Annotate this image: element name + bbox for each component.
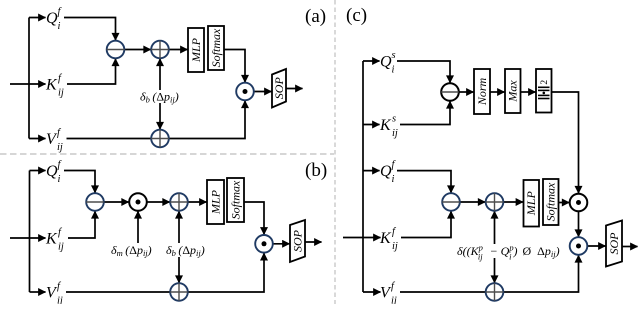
svg-text:ij: ij xyxy=(58,88,64,99)
wire multiply2 to SOP (c) xyxy=(587,245,605,247)
wire multiply to SOP (b) xyxy=(273,243,290,245)
wire delta_b down to add2 (a) xyxy=(159,103,161,129)
svg-text:ij: ij xyxy=(392,241,398,252)
wire Norm to Max (c) xyxy=(490,91,505,93)
wire trunk to V label (a) xyxy=(29,138,46,140)
subtract2 circle (c) xyxy=(442,193,460,211)
svg-text:K: K xyxy=(45,77,58,94)
wire Ks to subtract1 (c) xyxy=(400,101,450,124)
wire trunk (c) xyxy=(362,61,364,292)
wire Qs to subtract1 (c) xyxy=(397,61,450,83)
wire Max to norm2 (c) xyxy=(521,91,536,93)
svg-text:ij: ij xyxy=(58,242,64,253)
wire V line to multiply (b) xyxy=(66,253,264,292)
wire trunk to V label (b) xyxy=(30,291,46,293)
wire multiply1 to multiply2 (c) xyxy=(578,211,580,236)
svg-text:δm(Δpij): δm(Δpij) xyxy=(111,243,152,258)
wire Q to subtract (b) xyxy=(64,171,95,193)
wire delta up to add1 (c) xyxy=(494,211,496,244)
MLP box (c) xyxy=(524,180,540,227)
svg-text:s: s xyxy=(392,114,396,125)
svg-text:Q: Q xyxy=(46,163,58,180)
svg-text:s: s xyxy=(392,50,396,61)
wire subtract2 to add1 (c) xyxy=(460,201,485,203)
wire trunk (b) xyxy=(29,171,31,293)
wire V line to multiply (a) xyxy=(67,101,246,139)
add1 circle (c) xyxy=(486,193,504,211)
svg-text:MLP: MLP xyxy=(209,189,223,215)
svg-text:ij: ij xyxy=(57,296,63,305)
svg-text:MLP: MLP xyxy=(189,37,203,63)
Max box (c) xyxy=(505,69,521,113)
wire trunk (a) xyxy=(28,18,30,139)
svg-text:ij: ij xyxy=(391,296,397,305)
svg-text:i: i xyxy=(58,21,61,32)
wire input arrow (a) xyxy=(10,83,46,85)
svg-text:MLP: MLP xyxy=(524,191,538,217)
wire SOP output (a) xyxy=(286,88,303,90)
wire trunk to V label (c) xyxy=(363,291,381,293)
svg-text:δ((Kpij − Qpi)ØΔpij): δ((Kpij − Qpi)ØΔpij) xyxy=(457,243,560,262)
svg-text:i: i xyxy=(58,174,61,185)
wire SOP output (c) xyxy=(622,246,638,248)
norm2 box (c) xyxy=(536,69,552,113)
wire delta_m up to dotprod (b) xyxy=(137,211,139,243)
svg-text:Softmax: Softmax xyxy=(544,182,558,221)
add2 circle on V (c) xyxy=(486,283,504,301)
svg-text:ij: ij xyxy=(57,142,63,153)
svg-text:δb(Δpij): δb(Δpij) xyxy=(140,90,179,105)
wire delta_b up to add (a) xyxy=(159,59,161,90)
wire Softmax to multiply (a) xyxy=(224,50,245,83)
add circle (b) xyxy=(170,193,188,211)
wire K to subtract (a) xyxy=(67,59,116,84)
wire trunk to Qs label (c) xyxy=(363,60,380,62)
wire SOP output (b) xyxy=(305,241,322,243)
wire input arrow (c) xyxy=(343,237,381,239)
wire add to MLP (a) xyxy=(169,49,188,51)
wire V line to multiply2 (c) xyxy=(400,255,579,292)
svg-text:i: i xyxy=(392,65,395,76)
multiply2 circle (c) xyxy=(570,237,588,255)
svg-text:f: f xyxy=(58,160,63,171)
svg-text:f: f xyxy=(57,128,62,139)
SOP parallelogram (a) xyxy=(272,69,286,108)
svg-text:ij: ij xyxy=(392,128,398,139)
svg-text:Max: Max xyxy=(506,80,520,103)
Softmax box (b) xyxy=(227,178,244,222)
add circle on V (b) xyxy=(170,283,188,301)
wire Qf to subtract2 (c) xyxy=(397,171,451,193)
wire subtract to add (a) xyxy=(124,49,150,51)
wire trunk to Q label (b) xyxy=(30,170,46,172)
subtract circle (b) xyxy=(86,193,104,211)
wire trunk to Q label (a) xyxy=(29,17,46,19)
svg-text:Q: Q xyxy=(380,54,392,71)
svg-text:SOP: SOP xyxy=(607,232,621,255)
svg-text:f: f xyxy=(58,7,63,18)
svg-text:f: f xyxy=(58,227,63,238)
svg-text:Softmax: Softmax xyxy=(229,180,243,219)
wire add1 to MLP (c) xyxy=(503,201,523,203)
svg-text:δb(Δpij): δb(Δpij) xyxy=(166,243,205,258)
subtract1 circle (c) xyxy=(441,83,459,101)
Norm box (c) xyxy=(474,69,490,114)
svg-text:(b): (b) xyxy=(305,160,327,181)
wire multiply to SOP (a) xyxy=(254,91,272,93)
add circle (a) xyxy=(151,41,169,59)
wire Kf to subtract2 (c) xyxy=(401,211,451,237)
wire dotprod to add (b) xyxy=(147,201,170,203)
wire delta_b down to add2 (b) xyxy=(178,257,180,283)
Softmax box (c) xyxy=(543,179,559,225)
wire delta_b up to add (b) xyxy=(178,211,180,243)
wire K to subtract (b) xyxy=(68,211,95,238)
svg-text:SOP: SOP xyxy=(272,77,286,100)
svg-text:Q: Q xyxy=(46,10,58,27)
svg-text:f: f xyxy=(392,160,397,171)
SOP parallelogram (c) xyxy=(606,221,622,267)
wire input arrow (b) xyxy=(10,237,46,239)
svg-text:(a): (a) xyxy=(305,6,326,27)
wire norm2 to multiply1 (c) xyxy=(552,92,579,193)
wire delta down to add2 (c) xyxy=(494,258,496,283)
svg-text:i: i xyxy=(392,174,395,185)
add circle on V (a) xyxy=(151,130,169,148)
dotprod circle (b) xyxy=(129,193,147,211)
svg-text:Softmax: Softmax xyxy=(209,28,223,67)
multiply1 circle (c) xyxy=(570,194,588,212)
svg-text:2: 2 xyxy=(540,80,550,85)
wire subtract to dotprod (b) xyxy=(104,201,129,203)
multiply circle (a) xyxy=(236,83,254,101)
dashed separator vertical xyxy=(334,0,336,304)
multiply circle (b) xyxy=(255,235,273,253)
MLP box (b) xyxy=(207,180,224,224)
svg-text:K: K xyxy=(379,117,392,134)
svg-text:Norm: Norm xyxy=(475,77,489,106)
SOP parallelogram (b) xyxy=(290,220,305,262)
dashed separator horizontal xyxy=(0,153,334,155)
svg-text:f: f xyxy=(58,73,63,84)
wire subtract1 to Norm (c) xyxy=(459,91,474,93)
MLP box (a) xyxy=(188,28,204,72)
svg-text:f: f xyxy=(57,281,62,292)
wire Q to subtract (a) xyxy=(64,18,116,41)
svg-text:Q: Q xyxy=(380,163,392,180)
svg-text:f: f xyxy=(392,227,397,238)
svg-text:K: K xyxy=(379,230,392,247)
svg-text:(c): (c) xyxy=(346,5,367,26)
wire trunk to Qf label (c) xyxy=(363,170,380,172)
svg-text:f: f xyxy=(391,281,396,292)
wire add to MLP (b) xyxy=(188,201,207,203)
Softmax box (a) xyxy=(208,26,224,70)
wire trunk to Ks label (c) xyxy=(363,124,380,126)
subtract circle (a) xyxy=(107,41,125,59)
wire Softmax to multiply (b) xyxy=(244,202,264,235)
svg-text:SOP: SOP xyxy=(291,229,305,252)
wire Softmax to multiply1 (c) xyxy=(559,202,570,204)
svg-text:K: K xyxy=(45,231,58,248)
